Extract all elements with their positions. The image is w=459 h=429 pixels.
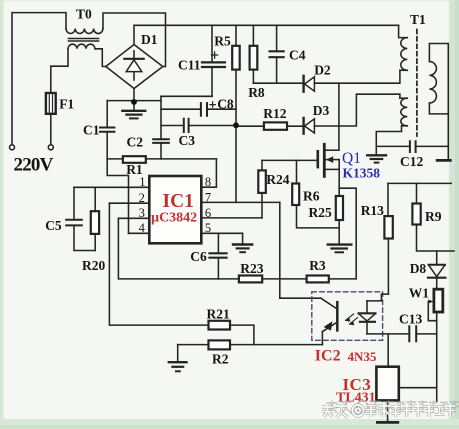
- svg-text:220V: 220V: [14, 155, 54, 176]
- svg-text:C5: C5: [45, 218, 62, 233]
- svg-text:C4: C4: [289, 48, 306, 63]
- svg-text:5: 5: [205, 221, 211, 235]
- svg-text:R21: R21: [207, 307, 230, 322]
- svg-text:R2: R2: [212, 352, 229, 367]
- svg-text:K1358: K1358: [343, 166, 381, 181]
- svg-text:4N35: 4N35: [348, 349, 377, 364]
- svg-text:R6: R6: [303, 189, 320, 204]
- svg-text:7: 7: [205, 191, 211, 205]
- svg-text:C11: C11: [178, 58, 201, 73]
- svg-text:4: 4: [139, 221, 146, 235]
- svg-text:1: 1: [139, 175, 145, 189]
- svg-text:TL431: TL431: [336, 391, 376, 406]
- svg-text:2: 2: [139, 191, 145, 205]
- svg-text:R13: R13: [361, 203, 384, 218]
- svg-text:IC2: IC2: [315, 347, 341, 364]
- svg-text:C8: C8: [217, 96, 234, 111]
- svg-text:D3: D3: [313, 103, 330, 118]
- svg-text:D2: D2: [314, 63, 331, 78]
- svg-text:C3: C3: [179, 133, 196, 148]
- svg-text:T0: T0: [76, 7, 92, 22]
- svg-text:6: 6: [205, 206, 211, 220]
- svg-text:C2: C2: [127, 134, 144, 149]
- svg-text:R20: R20: [82, 258, 105, 273]
- svg-text:D1: D1: [141, 32, 158, 47]
- svg-text:R25: R25: [309, 205, 332, 220]
- svg-text:8: 8: [205, 175, 211, 189]
- svg-text:R24: R24: [266, 172, 289, 187]
- svg-text:T1: T1: [410, 12, 426, 27]
- svg-text:R5: R5: [214, 34, 231, 49]
- svg-text:C13: C13: [399, 312, 422, 327]
- svg-text:R9: R9: [425, 209, 442, 224]
- svg-text:C6: C6: [190, 249, 207, 264]
- svg-text:R8: R8: [248, 85, 265, 100]
- svg-text:C1: C1: [83, 122, 100, 137]
- svg-text:C12: C12: [400, 154, 423, 169]
- svg-text:R3: R3: [309, 258, 326, 273]
- svg-text:F1: F1: [59, 97, 74, 112]
- svg-text:W1: W1: [409, 286, 430, 301]
- svg-text:R12: R12: [263, 106, 286, 121]
- svg-text:IC1: IC1: [163, 191, 194, 212]
- svg-text:3: 3: [139, 206, 145, 220]
- svg-text:µC3842: µC3842: [151, 211, 197, 226]
- svg-text:R23: R23: [240, 261, 263, 276]
- svg-text:D8: D8: [410, 261, 427, 276]
